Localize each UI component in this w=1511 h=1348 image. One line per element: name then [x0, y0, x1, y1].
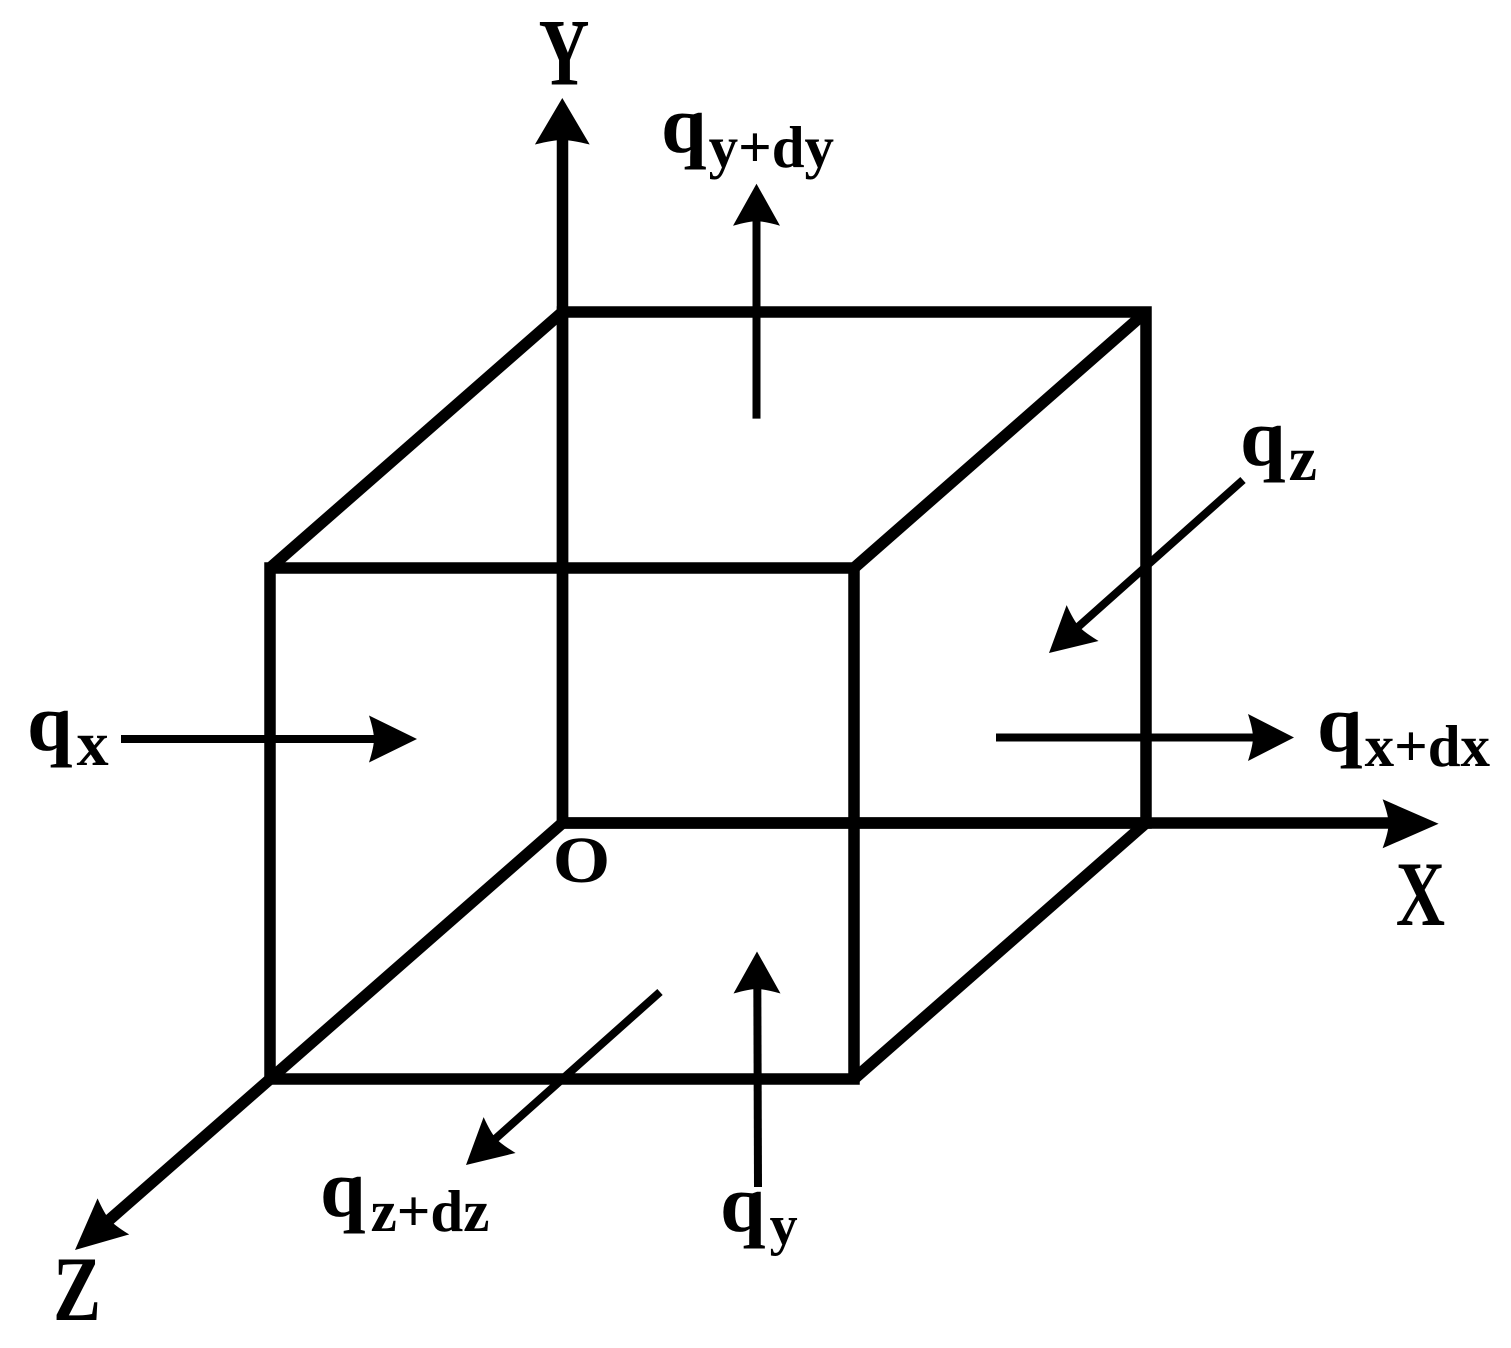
flux arrow q_x+dx [996, 734, 1262, 742]
flux arrow q_z [1069, 480, 1243, 635]
arrowhead q_y+dy [733, 184, 780, 226]
flux arrow q_z+dz [485, 992, 660, 1148]
svg-text:X: X [1396, 843, 1445, 945]
flux arrow q_x [121, 735, 385, 743]
arrowhead q_y [734, 952, 781, 994]
svg-text:Y: Y [539, 2, 590, 107]
svg-text:O: O [553, 825, 610, 898]
X axis arrowhead [1383, 799, 1439, 848]
svg-text:Z: Z [53, 1237, 101, 1340]
Y axis arrowhead [535, 98, 590, 145]
cube back face [563, 312, 1147, 823]
cube edge top-left connector [270, 312, 563, 568]
arrowhead q_z [1033, 605, 1099, 671]
X axis [563, 817, 1399, 829]
arrowhead q_z+dz [450, 1117, 516, 1183]
arrowhead q_x [369, 716, 417, 763]
flux arrow q_y+dy [753, 212, 761, 419]
arrowhead q_x+dx [1248, 714, 1294, 761]
Z axis arrowhead [59, 1198, 129, 1268]
flux arrow q_y [753, 980, 762, 1187]
cube edge top-right connector [854, 312, 1146, 568]
cube edge bottom-right connector [854, 823, 1146, 1079]
Z axis [100, 823, 563, 1228]
cube front face [270, 568, 854, 1079]
Y axis [557, 133, 569, 823]
